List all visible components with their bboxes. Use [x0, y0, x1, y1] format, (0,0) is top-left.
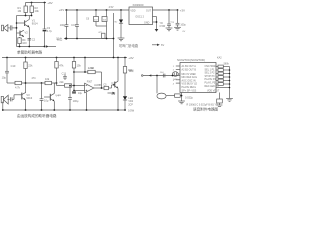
resistor key row4	[216, 76, 230, 79]
node bus 7	[229, 87, 231, 89]
wire input top node	[17, 15, 32, 17]
wire speaker pin3	[153, 21, 157, 23]
svg-text:+6V: +6V	[59, 8, 64, 12]
resistor R14	[175, 94, 182, 97]
node gnd 3	[44, 46, 46, 48]
node R5 C11	[41, 82, 43, 84]
arrow gnd out	[46, 45, 56, 48]
wire right vertical mid	[113, 13, 115, 58]
svg-text:0.5W: 0.5W	[128, 109, 135, 113]
node out right	[113, 38, 115, 40]
svg-text:0.022μ: 0.022μ	[185, 96, 193, 100]
svg-text:0.01: 0.01	[71, 24, 76, 27]
node bus 5	[229, 80, 231, 82]
svg-text:SP+ SP- VSS: SP+ SP- VSS	[182, 89, 197, 92]
node bus 2	[229, 69, 231, 71]
svg-text:由运放构成的助听器电路: 由运放构成的助听器电路	[17, 113, 57, 118]
resistor R12 input	[57, 80, 85, 87]
wire left vertical	[16, 16, 18, 47]
capacitor C2 bypass	[28, 37, 36, 41]
svg-text:6V: 6V	[161, 43, 164, 47]
svg-text:VD2: VD2	[128, 100, 133, 103]
wire left vert lower-mid upper	[117, 58, 119, 82]
node rb 2	[25, 109, 27, 111]
resistor R8	[55, 58, 64, 86]
resistor R11 feedback	[74, 66, 102, 88]
svg-text:C5: C5	[103, 83, 107, 86]
node bus 3	[229, 73, 231, 75]
svg-text:9014: 9014	[32, 22, 38, 26]
diode VD1	[114, 10, 123, 38]
wire +V rail mid	[65, 9, 129, 11]
svg-text:C6: C6	[86, 18, 90, 21]
capacitor C1 coupling	[10, 25, 16, 30]
ground C8	[166, 28, 173, 31]
svg-text:0.1: 0.1	[171, 22, 175, 24]
svg-text:+9V: +9V	[47, 1, 52, 5]
crystal X2	[102, 10, 107, 26]
resistor key row2	[216, 69, 230, 72]
node rail junction C3	[44, 2, 46, 4]
wire base V3	[14, 94, 22, 96]
node r3 e	[84, 57, 86, 59]
arrow power in	[152, 43, 164, 47]
wire op power	[86, 92, 88, 110]
capacitor C10	[2, 58, 16, 84]
svg-text:F007: F007	[87, 80, 93, 83]
node r3 h	[124, 57, 126, 59]
microphone B2	[1, 95, 9, 110]
node r3 a	[6, 57, 8, 59]
node out C4	[66, 38, 68, 40]
svg-text:474: 474	[32, 77, 37, 80]
svg-text:OUT: OUT	[146, 9, 152, 12]
svg-text:2CP: 2CP	[128, 103, 133, 106]
resistor R13	[123, 58, 133, 97]
capacitor C15 output	[103, 82, 115, 90]
svg-text:VDD: VDD	[130, 9, 135, 12]
transistor V3 9013	[22, 93, 33, 110]
node gnd 2	[28, 46, 30, 48]
wire output line	[64, 37, 114, 40]
resistor R5 horizontal	[7, 81, 57, 89]
node X2 top	[106, 9, 108, 11]
wire base V4	[44, 96, 50, 98]
node out junction	[113, 84, 115, 86]
pin stub left 3	[173, 80, 180, 82]
wire +9V rail top-left	[26, 2, 47, 4]
crystal X1	[94, 10, 99, 26]
node R1 bottom	[25, 15, 27, 17]
wire right bus	[229, 67, 231, 99]
wire ground rail top-left	[17, 46, 45, 48]
transistor V4 9013	[50, 83, 59, 110]
wire bottom rail lower	[2, 109, 126, 111]
svg-text:22k: 22k	[59, 80, 64, 84]
resistor key row3	[216, 72, 230, 75]
svg-text:1: 1	[173, 66, 175, 68]
node minus input	[73, 85, 75, 87]
pin stub right 7	[216, 87, 230, 89]
capacitor C11	[40, 83, 49, 110]
resistor R6	[24, 58, 33, 94]
svg-text:LM386: LM386	[94, 84, 102, 87]
wire mid rail lower	[2, 57, 127, 59]
resistor R10	[85, 58, 94, 73]
resistor R4	[18, 37, 27, 47]
svg-text:+3V: +3V	[180, 9, 185, 13]
svg-text:单管助听器电路: 单管助听器电路	[17, 49, 43, 54]
svg-text:4: 4	[173, 83, 175, 85]
svg-text:100μ: 100μ	[180, 23, 186, 26]
resistor key row6	[216, 83, 230, 86]
node trigger ic	[172, 75, 174, 77]
svg-text:100μ: 100μ	[60, 24, 66, 27]
node rb 3	[41, 109, 43, 111]
node gnd 1	[19, 46, 21, 48]
node speaker pins	[156, 21, 158, 23]
capacitor C14	[68, 86, 79, 111]
wire rail right of IC1	[153, 9, 179, 11]
svg-text:KD9300: KD9300	[133, 3, 144, 7]
node rail junction R2	[31, 2, 33, 4]
arrow to speaker	[155, 29, 159, 32]
node ic gnd	[181, 95, 183, 97]
resistor R2	[30, 3, 39, 16]
node fb left	[73, 71, 75, 73]
capacitor C16 series	[160, 72, 165, 78]
node bus 6	[229, 83, 231, 85]
node input	[16, 27, 18, 29]
wire trigger line	[141, 74, 180, 76]
svg-text:VD: VD	[114, 22, 117, 24]
node plus input	[73, 90, 75, 92]
svg-text:10μ: 10μ	[44, 99, 49, 103]
node out osc	[106, 38, 108, 40]
node trigger speaker	[156, 75, 158, 77]
svg-text:10k: 10k	[45, 77, 50, 81]
svg-text:输出: 输出	[56, 36, 62, 41]
node r3 f	[113, 57, 115, 59]
svg-text:0.5W: 0.5W	[160, 25, 166, 28]
ground C7	[174, 27, 181, 30]
op IC1 music chip	[129, 7, 153, 25]
svg-text:触发: 触发	[129, 68, 134, 72]
node C7 top	[177, 9, 179, 11]
svg-text:10μ: 10μ	[78, 92, 83, 95]
wire speaker pin2	[153, 17, 157, 30]
svg-text:100μ: 100μ	[73, 99, 79, 103]
node base wire	[16, 22, 18, 24]
node C4 top	[66, 9, 68, 11]
node output fb	[101, 87, 103, 89]
svg-text:R 100kΩ C 0.022μF B 8Ω YD: R 100kΩ C 0.022μF B 8Ω YD	[187, 103, 219, 106]
svg-text:OSC1 2: OSC1 2	[135, 16, 144, 19]
node 169	[168, 9, 170, 11]
svg-text:C10: C10	[11, 64, 16, 68]
pin stub left 1	[173, 66, 180, 68]
LED VD2	[123, 96, 134, 110]
wire osc down	[106, 26, 108, 39]
pin stub left 2	[173, 70, 180, 72]
pin stub left 4	[173, 83, 180, 85]
wire V1 emitter	[28, 27, 30, 46]
svg-text:语音附件电路图: 语音附件电路图	[193, 107, 219, 112]
wire plus input	[74, 90, 85, 92]
svg-text:560k: 560k	[224, 63, 230, 66]
node rb 7	[117, 109, 119, 111]
capacitor C12	[10, 95, 14, 102]
svg-text:+3V: +3V	[128, 56, 133, 60]
svg-text:GND: GND	[144, 21, 150, 24]
svg-text:6V: 6V	[183, 31, 186, 33]
wire ic bottom pin	[181, 93, 183, 102]
svg-text:9013: 9013	[26, 96, 32, 100]
svg-text:4.5V: 4.5V	[109, 6, 114, 9]
svg-text:22k: 22k	[28, 64, 33, 68]
svg-text:KA2: KA2	[217, 57, 222, 60]
transistor V5	[115, 81, 118, 88]
svg-text:A2 B2 OUT B: A2 B2 OUT B	[182, 68, 197, 71]
capacitor C3 electrolytic	[43, 3, 53, 47]
svg-text:SC9270C(SC9270D): SC9270C(SC9270D)	[177, 58, 205, 62]
svg-text:C2: C2	[32, 37, 36, 41]
capacitor C9	[72, 91, 83, 96]
node R5 V4	[56, 82, 58, 84]
svg-text:叨咘门铃电路: 叨咘门铃电路	[119, 43, 139, 48]
resistor key row5	[216, 79, 230, 82]
svg-text:MIC: MIC	[174, 79, 178, 81]
svg-text:10k: 10k	[111, 93, 116, 96]
node C14 top	[69, 85, 71, 87]
node r3 d	[73, 57, 75, 59]
transistor V2	[17, 30, 29, 37]
node fb mid	[84, 71, 86, 73]
node rb 6	[86, 109, 88, 111]
label YD	[160, 22, 166, 28]
op IC3 voice chip	[180, 63, 216, 93]
op-amp IC2	[85, 80, 103, 92]
node out C5	[76, 38, 78, 40]
resistor R1	[18, 3, 28, 16]
node r3 b	[25, 57, 27, 59]
svg-text:10μ: 10μ	[2, 76, 7, 80]
node rb 8	[124, 109, 126, 111]
svg-text:100: 100	[22, 41, 27, 45]
capacitor C13	[62, 72, 67, 80]
wire left vert lower-mid lower	[117, 88, 119, 110]
node r3 c	[56, 57, 58, 59]
svg-text:1M: 1M	[91, 67, 94, 70]
node bus 4	[229, 76, 231, 78]
capacitor C7	[172, 10, 186, 27]
node rb 1	[2, 109, 4, 111]
node r3 g	[117, 57, 119, 59]
capacitor C5	[71, 10, 79, 39]
node rb 5	[69, 109, 71, 111]
svg-text:V2: V2	[25, 30, 29, 34]
ground diode	[118, 38, 125, 41]
svg-text:C13: C13	[62, 72, 67, 75]
transistor V1 9014	[25, 16, 39, 28]
speaker Y1	[157, 93, 175, 99]
capacitor C4	[60, 10, 69, 39]
microphone MIC3	[172, 72, 180, 77]
svg-text:R9: R9	[58, 95, 62, 97]
svg-text:1M: 1M	[18, 9, 22, 13]
node diode top	[120, 9, 122, 11]
node C5 top	[76, 9, 78, 11]
capacitor C8	[167, 10, 174, 28]
node R5 V3	[25, 82, 27, 84]
arrow output	[108, 92, 116, 95]
svg-text:104: 104	[160, 72, 164, 74]
node rb 4	[53, 109, 55, 111]
svg-text:4.7k: 4.7k	[15, 86, 21, 90]
resistor R7 series	[45, 77, 52, 85]
ground ic3	[178, 101, 185, 104]
wire ic bottom pin2	[217, 93, 223, 107]
svg-text:15k: 15k	[77, 63, 82, 67]
wire osc bottom	[96, 25, 107, 27]
svg-text:VDD VOUT: VDD VOUT	[207, 89, 220, 92]
node R2 bottom	[31, 15, 33, 17]
resistor RP1 row	[216, 63, 230, 68]
wire op output	[94, 87, 104, 89]
wire speaker top	[156, 76, 158, 94]
svg-text:2: 2	[173, 70, 175, 72]
ground bus	[226, 99, 233, 102]
resistor R9	[72, 58, 81, 91]
svg-text:4.7μ: 4.7μ	[47, 29, 53, 33]
wire base V1	[17, 22, 25, 24]
resistor R osc out	[98, 32, 105, 39]
microphone B1	[2, 25, 10, 32]
svg-text:47k: 47k	[59, 63, 64, 67]
node X1 top	[95, 9, 97, 11]
svg-text:10k: 10k	[35, 9, 40, 13]
